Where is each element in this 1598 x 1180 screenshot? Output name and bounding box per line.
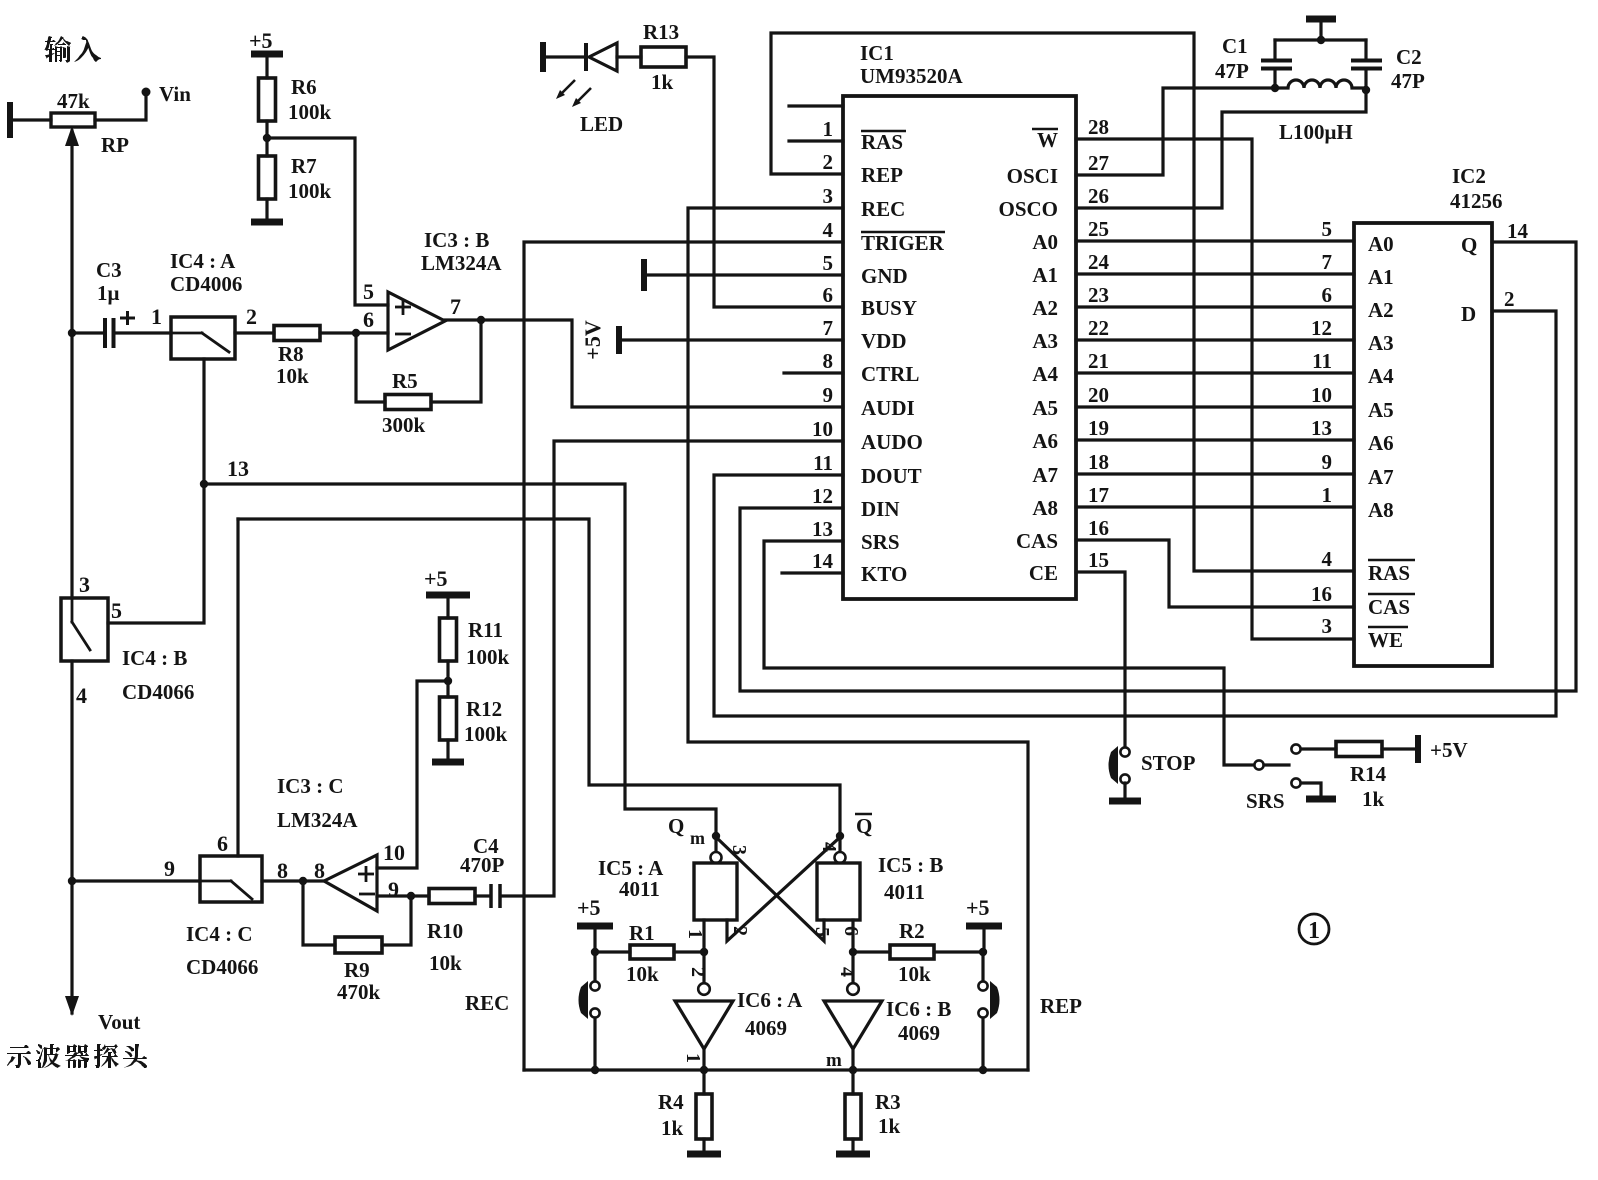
- svg-text:6: 6: [823, 283, 834, 307]
- node R2 right junction: [979, 948, 987, 956]
- wire A4 bus (IC1 pin 21 to IC2 pin 11): [1076, 371, 1354, 374]
- svg-text:R5: R5: [392, 369, 418, 393]
- IC1 pin number 18: [1088, 450, 1109, 474]
- IC1 pin number 2: [823, 150, 834, 174]
- IC2 label A8: [1368, 498, 1394, 522]
- label +5V: [1430, 738, 1468, 762]
- svg-text:4011: 4011: [884, 880, 925, 904]
- svg-text:C3: C3: [96, 258, 122, 282]
- svg-text:OSCO: OSCO: [998, 197, 1058, 221]
- IC2 pin number 4 (RAS): [1322, 547, 1333, 571]
- IC1 pin number 21: [1088, 349, 1109, 373]
- wire terminal to RP: [10, 118, 51, 121]
- inverter IC6:A: [675, 952, 733, 1070]
- wire control 13 to Q of flip-flop: [204, 484, 716, 833]
- label pin 4 of IC4:B: [76, 683, 87, 708]
- wire A0 bus (IC1 pin 25 to IC2 pin 5): [1076, 239, 1354, 242]
- IC1 pin 27 label OSCI: [1007, 164, 1058, 188]
- label pin 5 of IC5:B: [811, 927, 833, 937]
- IC1 pin number 15: [1088, 548, 1109, 572]
- label 41256: [1450, 189, 1503, 213]
- op-amp IC3:B: [388, 292, 445, 350]
- label pin 2 of IC5:A: [729, 926, 751, 936]
- node REC bottom junction: [591, 1066, 599, 1074]
- svg-text:3: 3: [1322, 614, 1333, 638]
- IC2 label WE: [1368, 627, 1408, 652]
- IC1 pin 6 label BUSY: [861, 296, 917, 320]
- IC1 pin number 7: [823, 316, 834, 340]
- IC2 pin number 13: [1311, 416, 1332, 440]
- op-amp IC3:C: [324, 855, 377, 911]
- svg-text:REC: REC: [861, 197, 905, 221]
- svg-text:4069: 4069: [745, 1016, 787, 1040]
- wire +5 bar down: [982, 926, 985, 952]
- switch SRS upper contact to R14: [1291, 744, 1336, 753]
- wire rail to C3: [72, 331, 102, 334]
- svg-text:12: 12: [1311, 316, 1332, 340]
- svg-text:CE: CE: [1029, 561, 1058, 585]
- wire rail to IC4:C pin9: [72, 879, 200, 882]
- wire R8 to op-amp pin6: [320, 331, 388, 334]
- svg-text:7: 7: [1322, 250, 1333, 274]
- svg-text:IC4 : B: IC4 : B: [122, 646, 187, 670]
- label R2 10k: [898, 919, 931, 986]
- node input terminal bar: [7, 102, 13, 138]
- IC1 pin number 25: [1088, 217, 1109, 241]
- label L100μH: [1279, 120, 1353, 144]
- IC1 pin number 12: [812, 484, 833, 508]
- label pin 8 of IC3:C: [314, 858, 325, 883]
- wire REC (pin3) to pushbutton bus: [688, 208, 1028, 1070]
- svg-text:A0: A0: [1368, 232, 1394, 256]
- label pin 1 of IC6:A: [682, 1053, 704, 1063]
- wire +5 bar to R1 node: [595, 926, 630, 952]
- IC1 pin number 5: [823, 251, 834, 275]
- label IC4:A: [170, 249, 236, 273]
- analog switch IC4:C: [200, 856, 262, 902]
- label Vin: [159, 82, 191, 106]
- svg-text:4069: 4069: [898, 1021, 940, 1045]
- svg-text:m: m: [690, 828, 705, 848]
- IC1 pin 26 label OSCO: [998, 197, 1058, 221]
- ground terminal bar at pin 5: [641, 259, 647, 291]
- wire LED to R13: [617, 55, 641, 58]
- svg-text:R10: R10: [427, 919, 463, 943]
- svg-text:m: m: [826, 1050, 842, 1071]
- IC1 pin 3 label REC: [861, 197, 905, 221]
- IC1 pin 16 label CAS: [1016, 529, 1058, 553]
- svg-text:19: 19: [1088, 416, 1109, 440]
- ground below STOP: [1109, 798, 1141, 805]
- svg-text:IC3 : C: IC3 : C: [277, 774, 344, 798]
- node R2 left junction: [849, 948, 857, 956]
- svg-text:A5: A5: [1032, 396, 1058, 420]
- svg-text:4: 4: [823, 218, 834, 242]
- IC1 pin number 11: [813, 451, 833, 475]
- switch SRS lower contact to ground: [1291, 778, 1321, 796]
- wire VDD (pin7) to +5V: [621, 338, 843, 341]
- label R1 10k: [626, 921, 659, 986]
- svg-text:+5: +5: [424, 566, 448, 591]
- svg-text:20: 20: [1088, 383, 1109, 407]
- resistor R7: [259, 156, 276, 199]
- label pin 3 of IC5:A: [728, 845, 750, 855]
- svg-text:L100μH: L100μH: [1279, 120, 1353, 144]
- node R8/feedback junction: [352, 329, 360, 337]
- IC1 pin number 23: [1088, 283, 1109, 307]
- IC2 pin number 6: [1322, 283, 1333, 307]
- IC1 pin number 19: [1088, 416, 1109, 440]
- svg-text:14: 14: [812, 549, 834, 573]
- wire bus under flip-flop: [524, 1068, 1028, 1071]
- svg-text:A5: A5: [1368, 398, 1394, 422]
- svg-text:10k: 10k: [898, 962, 931, 986]
- label LED: [580, 112, 623, 136]
- svg-text:A8: A8: [1368, 498, 1394, 522]
- svg-text:26: 26: [1088, 184, 1109, 208]
- svg-text:100k: 100k: [464, 722, 508, 746]
- IC2 label RAS: [1368, 560, 1415, 585]
- wire R11 to R12: [446, 661, 449, 697]
- wire A5 bus (IC1 pin 20 to IC2 pin 10): [1076, 405, 1354, 408]
- svg-text:SRS: SRS: [1246, 789, 1285, 813]
- wire control Q-bar to IC4:C: [238, 519, 840, 833]
- wire IC4:C pin8 to op-amp output: [262, 879, 324, 882]
- analog switch IC4:B: [61, 598, 108, 661]
- svg-text:8: 8: [277, 858, 288, 883]
- svg-text:Vin: Vin: [159, 82, 191, 106]
- wire W (pin28) to IC2 WE: [1076, 139, 1354, 639]
- svg-text:R6: R6: [291, 75, 317, 99]
- svg-text:IC4 : A: IC4 : A: [170, 249, 236, 273]
- svg-text:UM93520A: UM93520A: [860, 64, 963, 88]
- label 4011 (IC5:A): [619, 877, 660, 901]
- wire IC5:A pin2 cross-couple to Q-bar: [727, 839, 838, 941]
- IC1 pin 25 label A0: [1032, 230, 1058, 254]
- circled figure number 1: [1299, 914, 1329, 944]
- label LM324A: [277, 808, 358, 832]
- wire R13 to BUSY (IC1 pin 6): [686, 57, 843, 307]
- svg-text:13: 13: [227, 456, 249, 481]
- diode LED: [586, 43, 617, 71]
- svg-text:3: 3: [823, 184, 834, 208]
- svg-text:5: 5: [363, 279, 374, 304]
- svg-text:A3: A3: [1368, 331, 1394, 355]
- svg-text:R14: R14: [1350, 762, 1387, 786]
- svg-text:10k: 10k: [429, 951, 462, 975]
- node rail to IC4:C junction: [68, 877, 76, 885]
- wire feedback R9 loop: [303, 881, 335, 945]
- svg-text:A0: A0: [1032, 230, 1058, 254]
- IC1 pin 15 label CE: [1029, 561, 1058, 585]
- svg-text:17: 17: [1088, 483, 1109, 507]
- svg-text:CD4006: CD4006: [170, 272, 242, 296]
- svg-text:RAS: RAS: [861, 130, 903, 154]
- svg-text:6: 6: [217, 831, 228, 856]
- wire R10 to C4: [475, 894, 489, 897]
- svg-text:5: 5: [1322, 217, 1333, 241]
- wire CAS (pin16) to IC2 CAS: [1076, 540, 1354, 607]
- svg-text:Q: Q: [856, 814, 872, 838]
- IC2 label A2: [1368, 298, 1394, 322]
- resistor R2: [890, 945, 934, 959]
- svg-text:27: 27: [1088, 151, 1109, 175]
- svg-text:D: D: [1461, 302, 1476, 326]
- label R6 100k: [288, 75, 332, 124]
- node IC6:B output junction: [849, 1066, 857, 1074]
- svg-text:1k: 1k: [878, 1114, 901, 1138]
- IC2 label A3: [1368, 331, 1394, 355]
- label IC6:A: [737, 988, 803, 1012]
- label STOP: [1141, 751, 1196, 775]
- label UM93520A: [860, 64, 963, 88]
- label R11 100k: [466, 618, 510, 669]
- IC1 unconnected stub above pin 1: [789, 104, 843, 107]
- IC2 pin number 12: [1311, 316, 1332, 340]
- label pin 4 of IC5:B: [818, 842, 840, 852]
- node IC3:C output junction: [299, 877, 307, 885]
- IC1 pin 20 label A5: [1032, 396, 1058, 420]
- power +5 bar: [251, 51, 283, 58]
- IC2 pin number 5: [1322, 217, 1333, 241]
- wire RP to Vin: [95, 95, 146, 120]
- label IC4:B: [122, 646, 187, 670]
- svg-text:R12: R12: [466, 697, 502, 721]
- label pin 6 of IC4:C: [217, 831, 228, 856]
- wire R14 to +5V: [1382, 747, 1416, 750]
- svg-text:W: W: [1037, 128, 1058, 152]
- IC1 pin number 24: [1088, 250, 1110, 274]
- svg-text:DIN: DIN: [861, 497, 900, 521]
- node REP bottom junction: [979, 1066, 987, 1074]
- svg-text:SRS: SRS: [861, 530, 900, 554]
- svg-text:IC3 : B: IC3 : B: [424, 228, 489, 252]
- IC1 pin number 6: [823, 283, 834, 307]
- svg-text:47P: 47P: [1391, 69, 1425, 93]
- inverter IC6:B: [824, 952, 882, 1070]
- svg-text:REC: REC: [465, 991, 509, 1015]
- svg-text:4: 4: [836, 967, 858, 977]
- IC1 pin 28 label W: [1032, 128, 1058, 152]
- power +5 bar at R2: [966, 923, 1002, 930]
- svg-text:18: 18: [1088, 450, 1109, 474]
- svg-text:6: 6: [840, 926, 862, 936]
- label R9 470k: [337, 958, 381, 1004]
- wire A6 bus (IC1 pin 19 to IC2 pin 13): [1076, 438, 1354, 441]
- wire SRS (pin13) to SRS switch: [764, 541, 1254, 765]
- svg-text:+5V: +5V: [1430, 738, 1468, 762]
- power +5 label at R1: [577, 895, 601, 920]
- IC1 pin number 27: [1088, 151, 1109, 175]
- svg-text:28: 28: [1088, 115, 1109, 139]
- wire R5 to output node: [431, 320, 481, 402]
- wire IC3:C pin10 to R11/R12 divider: [377, 681, 448, 868]
- LED light arrows: [556, 80, 591, 107]
- svg-text:KTO: KTO: [861, 562, 907, 586]
- IC1 pin number 26: [1088, 184, 1109, 208]
- label IC4:C: [186, 922, 253, 946]
- IC2 label A6: [1368, 431, 1394, 455]
- IC2 pin number 11: [1312, 349, 1332, 373]
- resistor R1: [630, 945, 674, 959]
- node C2 bottom junction: [1362, 86, 1370, 94]
- svg-text:A7: A7: [1032, 463, 1058, 487]
- label pin 2 of IC6:A: [687, 967, 709, 977]
- IC1 pin 14 KTO stub: [782, 571, 843, 574]
- label CD4066: [122, 680, 194, 704]
- IC1 pin 13 label SRS: [861, 530, 900, 554]
- svg-text:GND: GND: [861, 264, 908, 288]
- svg-text:41256: 41256: [1450, 189, 1503, 213]
- svg-text:8: 8: [823, 349, 834, 373]
- IC2 label Q: [1461, 233, 1477, 257]
- svg-text:4: 4: [76, 683, 87, 708]
- node R1/pin1/IC6:A junction: [700, 948, 708, 956]
- svg-text:A1: A1: [1032, 263, 1058, 287]
- label 4069 (IC6:A): [745, 1016, 787, 1040]
- wire REP (pin2) to IC2 RAS: [771, 33, 1354, 571]
- node Q-bar junction: [836, 832, 844, 840]
- wire IC5:B pin6 to R2: [851, 920, 854, 952]
- label C2 47P: [1391, 45, 1425, 93]
- wire GND (pin5) to ground bar: [646, 273, 843, 276]
- power +5 label at R2: [966, 895, 990, 920]
- capacitor C4: [491, 884, 500, 908]
- IC2 label A4: [1368, 364, 1394, 388]
- power +5 bar at R1: [577, 923, 613, 930]
- power bar above oscillator: [1306, 19, 1336, 40]
- label pin 10 of IC3:C: [383, 840, 405, 865]
- wire feedback down to R5: [356, 333, 385, 402]
- svg-text:+5: +5: [966, 895, 990, 920]
- wire A2 bus (IC1 pin 23 to IC2 pin 6): [1076, 305, 1354, 308]
- label pin 5 of IC3:B: [363, 279, 374, 304]
- label pin 9 of IC4:C: [164, 856, 175, 881]
- svg-text:10: 10: [1311, 383, 1332, 407]
- svg-text:5: 5: [111, 598, 122, 623]
- wire OSCO (pin26) to C2: [1076, 90, 1366, 208]
- wire C4 to AUDO (IC1 pin 10): [502, 441, 843, 896]
- power +5V bar at VDD: [616, 326, 622, 354]
- label SRS: [1246, 789, 1285, 813]
- power +5 label above R6: [249, 28, 273, 53]
- node Q junction: [712, 832, 720, 840]
- svg-text:WE: WE: [1368, 628, 1403, 652]
- power +5 bar above R11: [426, 592, 470, 599]
- wire IC3:C pin9 to R10: [377, 894, 429, 897]
- resistor R8: [274, 326, 320, 341]
- wire IC5:B pin6 node to R2: [853, 950, 890, 953]
- svg-text:A6: A6: [1368, 431, 1394, 455]
- wire A3 bus (IC1 pin 22 to IC2 pin 12): [1076, 338, 1354, 341]
- label pin 9 of IC3:C: [388, 877, 399, 902]
- IC1 pin number 9: [823, 383, 834, 407]
- svg-text:10k: 10k: [626, 962, 659, 986]
- label R12 100k: [464, 697, 508, 746]
- label +5V rotated: [580, 320, 605, 360]
- node IC6:A output junction: [700, 1066, 708, 1074]
- node rail-C3 junction: [68, 329, 76, 337]
- wire IC5:B pin5 cross-couple to Q: [718, 839, 824, 941]
- label R14 1k: [1350, 762, 1387, 811]
- svg-text:1: 1: [682, 1053, 704, 1063]
- svg-text:9: 9: [1322, 450, 1333, 474]
- label IC2: [1452, 164, 1486, 188]
- IC2 label A7: [1368, 465, 1394, 489]
- label R8 10k: [276, 342, 309, 388]
- IC1 pin number 16: [1088, 516, 1109, 540]
- NAND gate IC5:A: [694, 836, 737, 920]
- svg-text:R7: R7: [291, 154, 317, 178]
- label pin 4 of IC6:B: [836, 967, 858, 977]
- IC1 pin 1 label RAS: [861, 130, 906, 154]
- label REC: [465, 991, 509, 1015]
- IC1 pin 10 label AUDO: [861, 430, 923, 454]
- svg-text:A6: A6: [1032, 429, 1058, 453]
- label pin 6 of IC5:B: [840, 926, 862, 936]
- wire R12 to ground: [446, 740, 449, 759]
- IC1 pin 12 label DIN: [861, 497, 900, 521]
- label REP: [1040, 994, 1082, 1018]
- capacitor C3: [105, 311, 135, 348]
- wire IC5:A pin1 to R1: [702, 920, 705, 952]
- wire DOUT (pin11) to IC2 D: [714, 311, 1556, 716]
- svg-text:9: 9: [388, 877, 399, 902]
- IC1 pin number 28: [1088, 115, 1109, 139]
- node oscillator top junction: [1317, 36, 1325, 44]
- IC U1 box UM93520A: [843, 96, 1076, 599]
- pushbutton STOP: [1109, 746, 1130, 798]
- svg-text:5: 5: [823, 251, 834, 275]
- svg-text:1: 1: [1322, 483, 1333, 507]
- wire +5 to R6: [265, 54, 268, 78]
- svg-text:R4: R4: [658, 1090, 684, 1114]
- svg-text:REP: REP: [861, 163, 903, 187]
- IC2 pin number 16 (CAS): [1311, 582, 1332, 606]
- label IC6:B: [886, 997, 951, 1021]
- wire A7 bus (IC1 pin 18 to IC2 pin 9): [1076, 472, 1354, 475]
- IC1 pin number 17: [1088, 483, 1109, 507]
- svg-text:470k: 470k: [337, 980, 381, 1004]
- svg-text:+5: +5: [249, 28, 273, 53]
- svg-text:VDD: VDD: [861, 329, 907, 353]
- svg-text:AUDI: AUDI: [861, 396, 915, 420]
- svg-text:LED: LED: [580, 112, 623, 136]
- svg-text:8: 8: [314, 858, 325, 883]
- svg-text:21: 21: [1088, 349, 1109, 373]
- svg-text:1: 1: [823, 117, 834, 141]
- svg-text:11: 11: [1312, 349, 1332, 373]
- IC2 pin number 14 (Q): [1507, 219, 1529, 243]
- svg-text:LM324A: LM324A: [421, 251, 502, 275]
- inductor L 100uH: [1275, 80, 1366, 88]
- svg-text:13: 13: [812, 517, 833, 541]
- svg-text:LM324A: LM324A: [277, 808, 358, 832]
- svg-text:15: 15: [1088, 548, 1109, 572]
- IC2 pin number 3 (WE): [1322, 614, 1333, 638]
- node R1 left junction: [591, 948, 599, 956]
- IC1 pin number 14: [812, 549, 834, 573]
- svg-text:CAS: CAS: [1368, 595, 1410, 619]
- svg-text:2: 2: [729, 926, 751, 936]
- svg-text:+5: +5: [577, 895, 601, 920]
- node pin9/R9 junction: [407, 892, 415, 900]
- IC U2 box 41256: [1354, 223, 1492, 666]
- svg-text:R2: R2: [899, 919, 925, 943]
- IC1 pin 1 RAS stub: [789, 139, 843, 142]
- label Q-bar: [855, 814, 872, 838]
- svg-text:R9: R9: [344, 958, 370, 982]
